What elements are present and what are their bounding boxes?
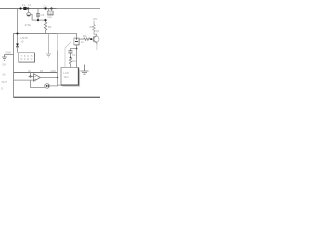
wire: [37, 9, 39, 14]
resistor R1 (vertical zigzag): [44, 22, 46, 34]
node J1: [19, 7, 21, 9]
node J11: [90, 38, 92, 40]
resistor R3 horizontal: [84, 38, 90, 40]
feedback loop wire: [31, 80, 45, 87]
svg-text:G: G: [1, 87, 3, 91]
svg-text:7805: 7805: [47, 17, 53, 19]
B1 to R3 wire: [79, 38, 83, 40]
wire: [31, 14, 46, 20]
wire: [28, 9, 30, 13]
svg-text:LCD: LCD: [64, 71, 69, 75]
regulator U3 leads: [49, 9, 52, 12]
stub from box to opamp: [30, 73, 32, 77]
capacitor C1 (electrolytic circle): [27, 12, 31, 16]
svg-text:C3: C3: [72, 53, 76, 57]
internal ground stub: [46, 34, 51, 58]
wire opamp + input: [14, 79, 34, 81]
svg-text:DCDC: DCDC: [21, 57, 33, 61]
svg-text:+5V: +5V: [93, 17, 98, 21]
node J3: [37, 19, 39, 21]
wire: [17, 47, 19, 53]
wire to ground: [5, 54, 14, 56]
svg-text:GND: GND: [51, 70, 57, 73]
svg-text:C2: C2: [41, 13, 45, 17]
svg-text:R3: R3: [83, 34, 87, 38]
svg-text:D0: D0: [3, 63, 7, 67]
left wire down: [13, 73, 15, 98]
IC big box U1: [14, 34, 58, 73]
node J9: [76, 48, 78, 50]
sensor box B1: [74, 38, 79, 45]
svg-text:Q1: Q1: [96, 30, 100, 33]
wire opamp - input: [29, 76, 34, 78]
opto LED D3: [45, 84, 50, 89]
node J7: [30, 76, 32, 78]
node J10: [70, 57, 72, 59]
node J4: [44, 7, 46, 9]
fuse F1: [23, 7, 26, 10]
svg-text:1k: 1k: [81, 41, 84, 44]
opamp output wire: [40, 77, 57, 79]
diode D2: [16, 44, 19, 47]
faint wiper wire: [65, 42, 71, 68]
svg-text:R2: R2: [73, 59, 77, 63]
transistor Q1: [93, 36, 99, 42]
op-amp U2: [34, 74, 41, 81]
top supply rail: [0, 8, 57, 10]
node J5: [50, 7, 52, 9]
right box U4: [61, 68, 79, 86]
wire Vin drop: [17, 9, 19, 44]
wire: [45, 20, 47, 22]
ground GND2: [81, 65, 89, 75]
svg-text:C1: C1: [28, 3, 32, 7]
wire to base: [90, 38, 94, 40]
svg-text:470u: 470u: [25, 23, 32, 27]
capacitor C3: [69, 51, 73, 53]
svg-text:LM78: LM78: [21, 36, 28, 40]
emitter fade wire: [96, 45, 98, 51]
wire: [70, 53, 72, 58]
resistor R2 vertical: [69, 58, 71, 68]
svg-text:OUT: OUT: [2, 80, 8, 84]
collector wire + resistor R4: [96, 34, 98, 36]
jog wire to cap chain: [71, 49, 77, 51]
svg-text:16x2: 16x2: [64, 76, 70, 79]
svg-text:R1: R1: [48, 25, 52, 29]
wire from opto to right: [49, 84, 61, 87]
node J2: [27, 7, 29, 9]
node J6: [17, 33, 19, 35]
svg-text:R4: R4: [90, 25, 94, 29]
node J12: [44, 19, 46, 21]
inner module box U1a: [19, 53, 35, 62]
top wire to right section: [58, 34, 77, 39]
regulator U3: [47, 11, 53, 15]
ground GND1: [2, 55, 7, 61]
svg-text:REG: REG: [48, 11, 54, 15]
wire vertical join: [57, 73, 59, 86]
node J8: [57, 77, 58, 78]
svg-text:F1: F1: [22, 3, 26, 7]
svg-text:+5: +5: [21, 40, 25, 44]
svg-text:GND: GND: [6, 51, 12, 54]
wire from B1 bottom: [76, 45, 78, 68]
svg-text:A1: A1: [3, 73, 7, 77]
capacitor C2: [36, 14, 40, 16]
resistor R4 vertical: [93, 25, 97, 35]
svg-text:D1: D1: [44, 4, 48, 8]
wire: [37, 16, 39, 20]
bottom rail: [14, 96, 101, 98]
